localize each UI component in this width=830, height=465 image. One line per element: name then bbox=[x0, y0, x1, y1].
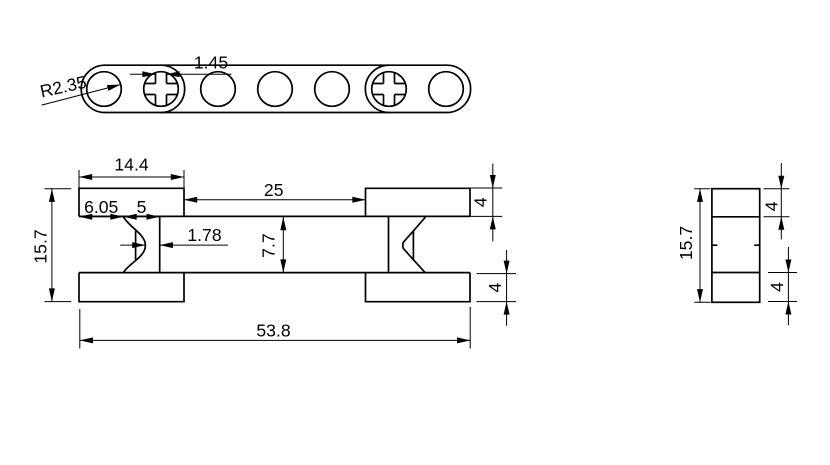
front outline top-right flange bbox=[366, 188, 471, 216]
dim 15.7 (side) extension lines bbox=[694, 189, 710, 303]
dim 4 (side top) bbox=[762, 163, 785, 239]
front outline top-left flange bbox=[79, 188, 184, 216]
svg-text:R2.35: R2.35 bbox=[38, 72, 88, 102]
beam outline (top view) bbox=[81, 65, 470, 112]
dim 4 (side bottom) extension lines bbox=[768, 273, 797, 302]
dim 15.7 extension lines (front) bbox=[45, 189, 72, 302]
side view top flange line bbox=[712, 216, 760, 218]
side view outline bbox=[712, 189, 760, 303]
hole 4 bbox=[258, 72, 293, 107]
svg-text:1.78: 1.78 bbox=[187, 225, 221, 245]
left axle hole section edge bbox=[159, 216, 161, 272]
dimension 1.45 bbox=[130, 53, 232, 75]
svg-text:1.45: 1.45 bbox=[194, 53, 228, 73]
svg-text:5: 5 bbox=[137, 197, 147, 217]
dim 14.4 extension lines bbox=[79, 170, 184, 188]
dim 4 (front top) bbox=[471, 164, 496, 242]
leader R2.35 bbox=[38, 72, 120, 105]
svg-text:4: 4 bbox=[485, 282, 505, 292]
web bottom edge bbox=[79, 272, 470, 274]
svg-text:6.05: 6.05 bbox=[84, 197, 118, 217]
hole 7 bbox=[429, 72, 464, 107]
dim 15.7 (side) bbox=[676, 189, 700, 303]
dim 53.8 bbox=[80, 321, 470, 341]
hole 5 bbox=[315, 72, 350, 107]
svg-text:4: 4 bbox=[762, 201, 782, 211]
svg-text:14.4: 14.4 bbox=[114, 155, 148, 175]
front outline bottom-right flange bbox=[366, 273, 471, 302]
hole 6 (axle cross hole) bbox=[372, 72, 407, 107]
svg-text:25: 25 bbox=[264, 180, 284, 200]
svg-text:53.8: 53.8 bbox=[256, 321, 290, 341]
dim 4 (front bottom) extension lines bbox=[477, 274, 517, 302]
side view bottom flange line bbox=[712, 272, 760, 274]
svg-text:4: 4 bbox=[471, 197, 491, 207]
dim 4 (front top) extension lines bbox=[469, 188, 502, 216]
hole 2 cross slot bbox=[145, 73, 178, 106]
svg-text:7.7: 7.7 bbox=[259, 233, 279, 257]
dim 6.05 bbox=[79, 197, 124, 217]
dim 25 bbox=[184, 180, 366, 200]
right axle hole section profile bbox=[403, 217, 426, 273]
dim 4 (side top) extension lines bbox=[764, 189, 790, 217]
dim 7.7 bbox=[259, 217, 284, 273]
dim 53.8 extension lines bbox=[80, 307, 470, 349]
web top edge bbox=[79, 215, 470, 217]
dim 15.7 (front) bbox=[31, 189, 52, 302]
dim 5 bbox=[124, 197, 160, 217]
hole 3 bbox=[201, 72, 236, 107]
svg-text:4: 4 bbox=[767, 282, 787, 292]
hole 6 boss arc bbox=[365, 65, 389, 112]
svg-text:15.7: 15.7 bbox=[31, 229, 51, 263]
front outline bottom-left flange bbox=[79, 273, 184, 302]
hole 1 bbox=[87, 72, 122, 107]
dim 14.4 bbox=[79, 155, 184, 177]
dim 1.78 bbox=[120, 225, 228, 245]
right axle hole section edge bbox=[388, 216, 390, 272]
side view center ticks bbox=[712, 244, 760, 246]
left axle hole section profile bbox=[124, 217, 146, 272]
hole 6 cross slot bbox=[373, 73, 406, 106]
hole 2 (axle cross hole) bbox=[144, 72, 179, 107]
hole 2 boss arc bbox=[161, 65, 185, 112]
dim 4 (side bottom) bbox=[767, 247, 792, 325]
dim 4 (front bottom) bbox=[485, 250, 510, 326]
svg-text:15.7: 15.7 bbox=[676, 226, 696, 260]
